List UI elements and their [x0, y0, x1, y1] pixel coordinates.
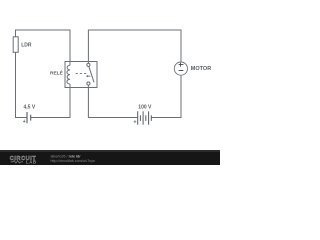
- wire: LDR top to relay coil top (node A): [16, 30, 71, 62]
- wire: LDR bottom to battery V1 positive: [16, 52, 27, 117]
- footer credit text: [51, 154, 96, 163]
- label battery V1: [23, 105, 36, 126]
- wire: battery V1 negative to relay coil bottom: [31, 88, 70, 118]
- relay linkage dashed line: [76, 73, 88, 75]
- relay coil: [67, 62, 70, 88]
- label battery V2: [134, 105, 153, 126]
- battery V2 100 V: [138, 111, 152, 124]
- relay RELE box: [65, 62, 97, 88]
- svg-text:4,5 V: 4,5 V: [24, 105, 36, 111]
- CircuitLab logo: [10, 156, 37, 164]
- wire: battery V2 negative to motor bottom: [151, 76, 181, 118]
- relay switch: [87, 62, 94, 88]
- svg-text:MOTOR: MOTOR: [191, 66, 211, 72]
- wire: relay switch bottom to battery V2 positive: [88, 88, 137, 118]
- motor M1: [174, 62, 211, 75]
- svg-text:+: +: [134, 119, 137, 125]
- svg-text:RELÉ: RELÉ: [50, 68, 64, 76]
- battery V1 4,5 V: [27, 112, 31, 123]
- wire: relay switch top to motor top (node B): [88, 30, 181, 62]
- svg-text:+: +: [23, 119, 26, 125]
- relay linkage arrow: [86, 75, 91, 77]
- svg-text:LDR: LDR: [21, 42, 32, 48]
- svg-text:100 V: 100 V: [138, 105, 152, 111]
- svg-text:LAB: LAB: [26, 160, 37, 165]
- footer bar: [0, 150, 220, 165]
- svg-text:alberto26 / rele ldr: alberto26 / rele ldr: [51, 154, 82, 158]
- svg-text:http://circuitlab.com/c/c7uyn: http://circuitlab.com/c/c7uyn: [51, 159, 96, 163]
- resistor LDR: [13, 37, 32, 53]
